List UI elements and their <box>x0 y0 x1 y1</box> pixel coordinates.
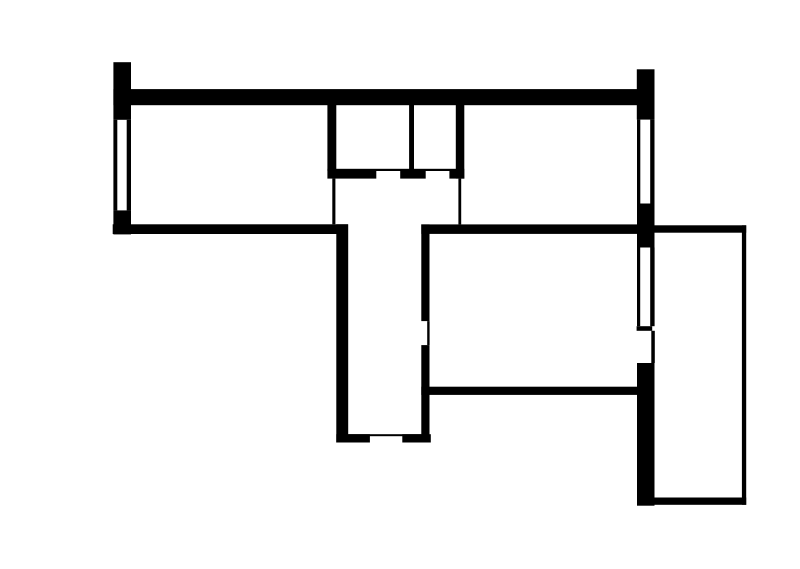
window W3 bottom sill <box>637 326 653 331</box>
exterior wall right lower section <box>637 363 655 506</box>
interior wall bottom of left room <box>113 224 348 234</box>
closet partition wall <box>409 105 414 171</box>
hall thin partition right <box>458 179 461 225</box>
closet bottom wall middle segment <box>400 171 426 179</box>
closet bottom wall left segment <box>327 171 376 179</box>
lower-right room bottom wall <box>421 387 638 395</box>
exterior wall right middle pier <box>637 204 655 248</box>
exterior wall right pier top <box>637 69 655 119</box>
window W1 outer line <box>113 120 117 211</box>
corridor right wall lower section <box>421 345 429 442</box>
exterior wall top <box>113 89 654 105</box>
closet left wall <box>327 105 336 171</box>
corridor left wall <box>336 224 348 442</box>
corridor bottom wall right segment <box>402 434 431 442</box>
closet right wall <box>456 105 465 179</box>
exterior wall left pier below window <box>113 210 131 234</box>
window W3 inner line <box>637 248 640 327</box>
balcony door jamb line <box>651 331 655 363</box>
window W2 inner line <box>637 120 640 204</box>
balcony right edge <box>742 225 746 505</box>
corridor bottom door threshold line <box>348 434 421 436</box>
window W1 inner line <box>127 120 131 211</box>
closet bottom lintel line <box>327 169 464 171</box>
balcony top edge <box>655 225 747 232</box>
window W2 outer line <box>650 120 654 204</box>
corridor right wall upper section <box>421 224 429 321</box>
balcony bottom edge <box>654 498 747 505</box>
corridor bottom wall left segment <box>336 434 370 442</box>
interior wall top of lower-right room <box>421 224 654 234</box>
corridor door jamb line <box>427 321 429 345</box>
closet bottom wall right segment <box>449 171 464 179</box>
exterior wall left pier above top wall <box>113 62 131 120</box>
window W3 outer line <box>650 248 654 327</box>
hall thin partition left <box>332 179 335 225</box>
